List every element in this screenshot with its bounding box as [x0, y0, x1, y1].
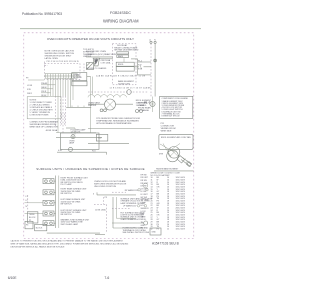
relay box 4 — [116, 67, 134, 72]
svg-text:P3: P3 — [105, 197, 107, 199]
svg-text:LR UNIT: LR UNIT — [141, 188, 149, 190]
svg-text:MODULE: MODULE — [74, 77, 83, 79]
svg-text:9 W: 9 W — [138, 65, 142, 67]
supply wire — [47, 232, 100, 234]
sensor symbol — [136, 110, 143, 113]
text block D — [120, 211, 145, 221]
text left of thermostat — [88, 103, 101, 108]
notes frame box — [27, 97, 61, 119]
oven sensor text block — [96, 117, 140, 125]
wires crossing to motor — [160, 144, 180, 158]
svg-text:BAKE: BAKE — [118, 55, 124, 58]
dashed stub B — [94, 203, 107, 205]
svg-text:12 BK 14GA: 12 BK 14GA — [95, 209, 106, 212]
svg-text:PILOT LAMP: PILOT LAMP — [61, 183, 73, 186]
svg-text:WIRING DIAGRAM: WIRING DIAGRAM — [103, 19, 139, 24]
switch contact ticks — [140, 65, 142, 68]
oven light box — [56, 133, 102, 151]
header rule — [20, 28, 201, 30]
text below legend — [161, 123, 176, 133]
relay vertical link — [123, 58, 125, 62]
svg-text:CONTROL (EOC) REAR VIEW: CONTROL (EOC) REAR VIEW — [87, 53, 116, 56]
svg-text:SENSOR: SENSOR — [141, 208, 150, 210]
svg-text:RF WARM 115V: RF WARM 115V — [125, 189, 139, 192]
svg-text:PK: PK — [157, 229, 160, 231]
svg-text:LOCK: LOCK — [141, 211, 147, 213]
switch row 3 text — [61, 198, 87, 205]
connector box B — [35, 224, 47, 230]
wire to pilot lamp — [112, 222, 144, 224]
svg-text:RF SW: RF SW — [141, 174, 147, 176]
eoc dashed boundary — [45, 64, 81, 80]
svg-text:COMPONENT CODE LEGEND: COMPONENT CODE LEGEND — [162, 98, 189, 100]
L1 terminal labels left — [26, 196, 28, 208]
svg-text:WIRE OF SAME SIZE, RATING AND: WIRE OF SAME SIZE, RATING AND INSULATION… — [11, 243, 129, 246]
svg-text:OF RANGE: OF RANGE — [138, 109, 149, 112]
element text right — [136, 100, 152, 107]
svg-text:N W: N W — [27, 89, 31, 91]
legend box — [160, 96, 193, 118]
component label column — [141, 174, 150, 229]
wire color labels left — [27, 82, 48, 97]
numbered list mid right — [138, 103, 151, 113]
wire to light box — [66, 128, 75, 134]
dotted feed vertical — [27, 195, 29, 212]
svg-text:HIDDEN BAKE ELEMENT: HIDDEN BAKE ELEMENT — [156, 168, 179, 171]
svg-text:Publication No. 5995417903: Publication No. 5995417903 — [22, 12, 62, 16]
relay to bus wire — [134, 66, 139, 68]
dashed stub C — [112, 207, 130, 209]
svg-text:L2: L2 — [26, 200, 28, 202]
L1 bus terminal — [150, 41, 152, 43]
N bus terminal — [154, 41, 156, 43]
svg-text:LF SW: LF SW — [141, 191, 147, 193]
svg-text:GLASS REMAINS HOT: GLASS REMAINS HOT — [120, 218, 141, 221]
feed wire row3 — [25, 202, 44, 204]
wire from transformer — [87, 76, 91, 78]
text block B — [120, 197, 152, 205]
svg-text:SWITCH AND LAMP: SWITCH AND LAMP — [61, 223, 79, 226]
svg-text:LF WARM 115V: LF WARM 115V — [123, 204, 137, 207]
svg-text:WIRE SIDE: WIRE SIDE — [161, 131, 172, 133]
broil element box — [159, 134, 193, 149]
svg-text:N: N — [26, 206, 28, 208]
svg-text:5 OR 14GA: 5 OR 14GA — [101, 62, 112, 65]
svg-text:BLOCK: BLOCK — [36, 227, 43, 229]
wire rise left — [96, 192, 98, 195]
connector box A — [25, 221, 33, 229]
vertical wire pair — [92, 77, 94, 95]
wire below light box — [88, 143, 129, 145]
svg-text:BROIL ELEMENT AND CONV FAN: BROIL ELEMENT AND CONV FAN — [161, 136, 191, 139]
svg-text:BROIL: BROIL — [141, 219, 147, 221]
switch row 4 text — [61, 209, 88, 216]
svg-text:RTD SENSOR PROBE 1080 OHMS AT: RTD SENSOR PROBE 1080 OHMS AT ROOM — [96, 117, 140, 120]
svg-text:P1-2: P1-2 — [138, 60, 142, 62]
svg-text:WITH INCREASE IN TEMPERATURE: WITH INCREASE IN TEMPERATURE — [96, 122, 132, 125]
fan motor circle 1 — [168, 147, 180, 159]
svg-text:12B R: 12B R — [41, 91, 47, 93]
svg-text:GND: GND — [141, 225, 146, 227]
wire code table — [151, 173, 186, 231]
svg-text:BLOCK: BLOCK — [29, 217, 36, 219]
svg-text:LAMP: LAMP — [69, 142, 75, 145]
label above light box — [71, 128, 87, 133]
svg-text:GROUND TO CHASSIS: GROUND TO CHASSIS — [86, 67, 107, 70]
wire right of trapezoid — [100, 58, 114, 60]
wire under element — [154, 170, 194, 172]
long wire under sensor text — [88, 128, 151, 130]
svg-text:8 BK: 8 BK — [138, 69, 143, 71]
svg-text:DEVICES AFTER SERVICE. ALL PAN: DEVICES AFTER SERVICE. ALL PANELS MUST B… — [11, 246, 66, 249]
svg-text:L1: L1 — [149, 40, 151, 42]
text block E — [123, 227, 150, 235]
svg-text:BAKE: BAKE — [141, 215, 147, 218]
splice circle on dashed wire — [127, 90, 132, 95]
vertical wire right of fan — [90, 77, 92, 134]
note text block right — [83, 49, 95, 58]
svg-text:105C 600V: 105C 600V — [176, 229, 186, 231]
wire above labels — [28, 79, 44, 81]
dashed wires low voltage — [62, 114, 65, 126]
wire above light box — [56, 132, 96, 134]
pin strip P9 — [44, 74, 80, 79]
svg-text:4 GY: 4 GY — [58, 150, 63, 152]
eoc pin labels — [86, 59, 111, 70]
svg-text:RF UNIT: RF UNIT — [141, 177, 149, 179]
svg-text:BROIL: BROIL — [118, 64, 124, 66]
svg-text:6. RESTORE POWER: 6. RESTORE POWER — [30, 114, 50, 116]
dashed wire mid — [88, 91, 148, 93]
supply wire lower — [95, 233, 105, 235]
relay box 1 — [117, 52, 129, 54]
svg-text:P9: P9 — [26, 77, 28, 79]
svg-text:8 WIRE NUT SPLICE: 8 WIRE NUT SPLICE — [162, 116, 181, 118]
svg-text:L1 BK: L1 BK — [27, 85, 33, 87]
svg-text:6: 6 — [93, 193, 94, 195]
ignitor box — [72, 81, 87, 86]
svg-text:L1: L1 — [26, 196, 28, 198]
notes list left — [30, 99, 54, 116]
svg-text:WZ UNIT: WZ UNIT — [141, 200, 150, 202]
svg-text:P4: P4 — [26, 225, 28, 227]
svg-text:SHOWN DE-ENERGIZED: SHOWN DE-ENERGIZED — [114, 50, 139, 52]
dashed sense wire — [83, 64, 85, 72]
svg-text:TERM: TERM — [29, 214, 35, 216]
svg-text:14A W: 14A W — [41, 86, 47, 89]
switch row 1 text — [61, 176, 89, 186]
wire below light box — [57, 151, 107, 153]
wire joining L1 bus — [138, 61, 151, 63]
dotted wire 2 — [103, 197, 105, 205]
svg-text:OVEN CIRCUITS OPERATED ON 240: OVEN CIRCUITS OPERATED ON 240 VOLTS CIRC… — [47, 37, 134, 41]
feed wire row4 — [25, 213, 44, 215]
element end cap — [187, 162, 192, 167]
svg-text:P9 1 2 3 4 5 6 7 8 9: P9 1 2 3 4 5 6 7 8 9 10 11 12 13 14 15 — [47, 61, 79, 63]
svg-text:INF SWITCH: INF SWITCH — [61, 204, 73, 206]
svg-text:12: 12 — [167, 229, 169, 231]
svg-text:12 R 13 BU 14 OR 15 Y 16 G: 12 R 13 BU 14 OR 15 Y 16 GY 22A BK — [110, 87, 152, 90]
element terminal box — [177, 156, 185, 163]
svg-text:SURFACE UNITS / UNIDADES DE SU: SURFACE UNITS / UNIDADES DE SUPERFICIE /… — [36, 167, 145, 171]
svg-text:WZ SW: WZ SW — [141, 197, 148, 199]
notes list left lower — [30, 121, 59, 128]
svg-text:6/10E: 6/10E — [8, 276, 18, 280]
L1 bus wire — [154, 44, 156, 97]
surface switch row 5 — [43, 221, 56, 226]
svg-text:RR SW: RR SW — [141, 180, 148, 182]
svg-text:7-6: 7-6 — [104, 276, 109, 280]
branch wires left — [41, 85, 56, 97]
bake element text — [118, 80, 135, 85]
line under eoc — [86, 56, 113, 58]
indicator row A lamps — [138, 189, 140, 191]
dashed drop from notes — [45, 62, 49, 66]
svg-text:GND: GND — [152, 231, 157, 233]
wire mid bottom — [97, 194, 136, 196]
svg-text:LAMP: LAMP — [141, 201, 147, 204]
transformer trapezoid — [93, 58, 99, 66]
wire to dashed bus low — [138, 74, 151, 76]
note text block left — [45, 49, 75, 60]
door lock motor — [88, 99, 133, 110]
dashed neutral bus — [150, 44, 152, 97]
svg-text:120 VOLTS: 120 VOLTS — [71, 132, 81, 134]
svg-text:40 BK 14GA: 40 BK 14GA — [46, 129, 58, 132]
svg-text:LF UNIT: LF UNIT — [141, 194, 149, 196]
surface switch row 4 — [43, 211, 56, 216]
dashed stub A — [112, 191, 126, 193]
relay text block — [114, 44, 139, 52]
relay drop wire — [137, 59, 139, 75]
switch row 5 text — [61, 219, 91, 226]
transformer box — [72, 73, 87, 81]
svg-text:DSI R: DSI R — [27, 93, 33, 95]
switch row 2 text — [61, 188, 88, 195]
eoc text block — [86, 51, 116, 56]
fan motor circle 2 — [167, 150, 179, 162]
wire joining dashed bus — [144, 66, 152, 68]
svg-text:INF SWITCH: INF SWITCH — [61, 193, 73, 195]
svg-text:P24: P24 — [92, 151, 95, 153]
small box left of table — [150, 228, 161, 235]
svg-text:WIRE SIDE OF CONNECTOR: WIRE SIDE OF CONNECTOR — [30, 126, 59, 128]
svg-text:P1: P1 — [141, 228, 143, 230]
dotted wire 1 — [106, 205, 108, 234]
wire fan below pin strip — [48, 78, 73, 133]
svg-text:32: 32 — [151, 229, 153, 231]
svg-text:INF SWITCH: INF SWITCH — [61, 214, 73, 216]
bus junction — [154, 59, 157, 62]
svg-text:2500W 240V: 2500W 240V — [118, 83, 131, 85]
relay box 2 — [117, 55, 129, 58]
surface bus line 1 — [55, 176, 57, 229]
svg-text:22A BK: 22A BK — [41, 82, 48, 85]
svg-text:LATCH OPEN.: LATCH OPEN. — [45, 57, 59, 60]
svg-text:OVEN DOOR LOCK MOTOR AND: OVEN DOOR LOCK MOTOR AND — [94, 180, 127, 183]
middle text column — [94, 180, 127, 188]
surface bus line 2 — [58, 176, 60, 229]
svg-text:LIMITER: LIMITER — [88, 105, 97, 107]
surface switch row 2 — [43, 190, 56, 195]
surface switch row 3 — [43, 200, 56, 205]
lock switch circle — [150, 97, 155, 113]
relay box 3 — [116, 62, 134, 66]
svg-text:CAUTION: TO PREVENT ELECTRIC S: CAUTION: TO PREVENT ELECTRIC SHOCK HAZAR… — [11, 240, 124, 243]
svg-text:22A BK 14A W 12B R 18A BU: 22A BK 14A W 12B R 18A BU 16A GY 11 OR — [96, 75, 146, 78]
vertical wire pair down — [113, 197, 144, 228]
terminal block P1 — [28, 212, 38, 223]
thermostat circles — [100, 109, 106, 112]
connector box small — [96, 134, 108, 141]
element coil line — [88, 95, 126, 98]
labels near bus — [138, 60, 143, 70]
pilot lamp — [144, 221, 148, 225]
surface switch row 1 — [43, 179, 56, 184]
indicator row C lamps — [137, 205, 139, 207]
fan spokes — [170, 148, 178, 156]
relay cluster dashed boundary — [112, 44, 136, 85]
svg-text:MTR: MTR — [159, 154, 164, 156]
svg-text:SEE INSTALL INSTRUCTIONS: SEE INSTALL INSTRUCTIONS — [123, 231, 150, 234]
svg-text:TEMPERATURE. RESISTANCE INCREA: TEMPERATURE. RESISTANCE INCREASES — [96, 120, 139, 123]
fuse element symbol — [87, 63, 94, 70]
svg-text:FAN: FAN — [141, 213, 145, 216]
outer dashed border — [24, 33, 194, 239]
svg-text:EOC: EOC — [141, 205, 146, 207]
svg-text:UNLOCKED POSITION: UNLOCKED POSITION — [94, 186, 117, 188]
svg-text:FGB24S5DC: FGB24S5DC — [110, 11, 131, 15]
heating element diagonal band — [181, 158, 192, 167]
svg-text:A15477103 SEU B: A15477103 SEU B — [152, 242, 179, 246]
relay output wire — [131, 58, 138, 60]
wire with ticks — [66, 106, 91, 108]
